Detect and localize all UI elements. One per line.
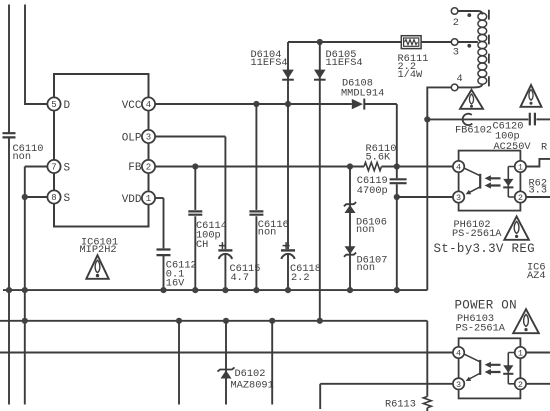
label PH6102 PS-2561A <box>452 219 502 240</box>
transformer T6001 pin2 terminal <box>458 11 483 15</box>
op-amp U1: IC6101 MIP2H2 body <box>54 74 149 227</box>
junction: pin8/pin7 rail <box>22 194 28 200</box>
pin numbers of PH6102 <box>456 163 523 204</box>
svg-text:2: 2 <box>518 380 523 390</box>
junction: VCC/C6116 <box>253 101 259 107</box>
label R62 3.3 (clipped) <box>529 177 548 196</box>
light arrows (PH6102) <box>490 178 500 185</box>
wire: transformer pin4 down to cold ground <box>427 87 451 290</box>
label D6102 MAZ8091 <box>231 368 274 392</box>
svg-text:11EFS4: 11EFS4 <box>326 57 363 69</box>
pin name labels of IC6101 <box>64 100 142 206</box>
pin 4 (VCC) of IC6101 <box>142 97 155 110</box>
capacitor C6115 (electrolytic) <box>218 249 232 251</box>
pin numbers of PH6103 <box>456 349 523 390</box>
wire: PH6102 pin2 out <box>526 196 550 198</box>
wire: VDD jog <box>155 197 163 199</box>
wire: PH6103 pin2 out <box>526 383 550 385</box>
wire: vertical drop x=272 <box>271 321 273 405</box>
label St-by3.3V REG <box>434 242 535 256</box>
svg-text:non: non <box>357 262 376 274</box>
junction: bus1/C6114 <box>192 287 198 293</box>
label IC6 AZ4 (clipped) <box>527 262 546 282</box>
svg-text:2.2: 2.2 <box>291 272 310 284</box>
polarity dot (pin2 side) <box>467 13 471 17</box>
svg-text:non: non <box>13 151 32 163</box>
pin 3 of PH6102 <box>453 191 464 202</box>
label D6105 11EFS4 <box>326 49 363 69</box>
svg-text:4: 4 <box>146 100 151 110</box>
wire: D6104/C6118 vertical <box>287 42 289 249</box>
svg-text:4: 4 <box>456 163 461 173</box>
svg-text:non: non <box>258 226 277 238</box>
wire: D6105 vertical <box>319 42 321 321</box>
label R6113 <box>385 398 416 410</box>
svg-text:MMDL914: MMDL914 <box>341 87 384 99</box>
wire: C6115 vertical (from OLP) <box>224 137 226 250</box>
phototransistor (PH6102) <box>463 168 480 176</box>
diode D6106 (zener) <box>344 202 356 206</box>
diode D6108 MMDL914 <box>352 99 363 109</box>
wire: FB row <box>155 166 364 168</box>
label R6110 5.6K <box>366 143 397 163</box>
transformer T6001 core <box>488 10 490 87</box>
svg-text:OLP: OLP <box>122 132 142 144</box>
wire: vertical drop x=179 <box>178 321 180 405</box>
svg-text:2: 2 <box>453 17 459 29</box>
warning triangle (below transformer) <box>460 90 483 109</box>
svg-text:8: 8 <box>51 193 56 203</box>
label C6118 2.2 <box>290 263 321 284</box>
svg-text:4.7: 4.7 <box>231 272 250 284</box>
pin 4 of PH6103 <box>453 347 464 358</box>
wire: bus 2 <box>0 320 427 322</box>
junction: pin4/FB6102 row <box>424 116 430 122</box>
pin 3 of PH6103 <box>453 378 464 389</box>
diode D6107 (zener) <box>345 246 356 254</box>
junction: bus1/left rail <box>6 287 12 293</box>
svg-text:AZ4: AZ4 <box>527 270 546 282</box>
transformer T6001 winding <box>478 13 487 84</box>
svg-text:non: non <box>356 224 375 236</box>
transformer T6001 pin3 terminal <box>458 41 478 43</box>
wire: bus 3 (POWER ON row to PH6103 pin4) <box>0 352 453 354</box>
wire: VCC row <box>155 103 352 105</box>
junction: FB/C6119 <box>394 163 400 169</box>
label C6120 100p AC250V <box>493 120 532 153</box>
capacitor C6120 <box>530 113 535 126</box>
svg-text:11EFS4: 11EFS4 <box>251 57 288 69</box>
capacitor C6116 <box>249 211 263 214</box>
svg-text:4: 4 <box>457 73 463 85</box>
svg-text:MAZ8091: MAZ8091 <box>231 379 274 391</box>
svg-text:VCC: VCC <box>122 100 142 112</box>
label POWER ON <box>455 298 517 312</box>
pin 4 of PH6102 <box>453 161 464 172</box>
LED (PH6103) <box>508 353 514 384</box>
svg-text:7: 7 <box>51 163 56 173</box>
junction: bus1/C6112 <box>160 287 166 293</box>
svg-text:1: 1 <box>146 194 151 204</box>
junction: C6119 bottom node <box>394 194 400 200</box>
capacitor C6118 (electrolytic) <box>281 249 295 251</box>
junction: bus2/x272 <box>269 318 275 324</box>
capacitor C6114 <box>188 211 202 214</box>
resistor R6111 (boxed) <box>401 36 421 49</box>
svg-text:3: 3 <box>453 47 459 59</box>
label D6104 11EFS4 <box>251 49 288 69</box>
capacitor C6119 <box>390 179 407 183</box>
junction: bus1/C6119 <box>394 287 400 293</box>
svg-text:5: 5 <box>51 100 56 110</box>
label IC6101 MIP2H2 <box>80 236 119 256</box>
svg-text:3.3: 3.3 <box>529 185 548 197</box>
label 3 <box>453 47 459 59</box>
svg-text:POWER ON: POWER ON <box>455 298 517 312</box>
wire: left rail vertical x=9 <box>8 5 10 134</box>
svg-text:CH: CH <box>196 239 208 251</box>
diode D6102 (zener) MAZ8091 <box>218 367 235 371</box>
junction: FB/D6106 <box>347 163 353 169</box>
warning triangle (PH6103) <box>513 309 539 333</box>
wire: pin7 to ground rail <box>25 166 48 168</box>
label R6111 2.2 1/4W <box>398 53 429 81</box>
svg-text:VDD: VDD <box>122 194 142 206</box>
wire: ground bus 1 <box>3 289 427 291</box>
opto-coupler PH6103 PS-2561A <box>459 338 521 398</box>
wire: R6113 tail <box>426 408 428 411</box>
svg-text:1/4W: 1/4W <box>398 69 424 81</box>
label D6106 non <box>356 216 387 236</box>
junction: bus1/C6118 <box>285 287 291 293</box>
svg-text:5.6K: 5.6K <box>366 151 392 163</box>
wire: C6119 node to PH6102 pin3 <box>397 196 453 198</box>
svg-text:D: D <box>64 100 71 112</box>
capacitor C6110 <box>3 133 16 137</box>
warning triangle (right of transformer) <box>521 85 542 107</box>
diode D6105 <box>314 70 326 79</box>
wire: bus2 corner down to R6113 <box>426 321 428 397</box>
wire: C6114 vertical <box>194 167 196 210</box>
svg-text:FB: FB <box>128 162 142 174</box>
svg-text:4700p: 4700p <box>357 185 388 197</box>
phototransistor (PH6103) <box>463 354 480 362</box>
pin 1 (VDD) of IC6101 <box>142 191 155 204</box>
pin 2 (FB) of IC6101 <box>142 160 155 173</box>
pin 5 (D) of IC6101 <box>47 97 60 110</box>
svg-text:2: 2 <box>146 163 151 173</box>
wire: D6102 vertical <box>225 321 227 405</box>
pin numbers of IC6101 <box>51 100 151 204</box>
opto-coupler PH6102 PS-2561A <box>459 151 521 211</box>
svg-text:PS-2561A: PS-2561A <box>456 322 506 334</box>
label R (clipped at edge) <box>541 142 547 154</box>
wire: pin3 row drop x=320 <box>319 384 321 409</box>
ferrite bead FB6102 <box>463 114 473 125</box>
junction: bus1/D6107 <box>347 287 353 293</box>
svg-text:4: 4 <box>456 349 461 359</box>
junction: VCC/D6104 <box>285 101 291 107</box>
wire: PH6103 pin3 row <box>320 383 453 385</box>
wire: FB6102 row <box>427 118 528 120</box>
junction: bus2/source rail <box>22 318 28 324</box>
svg-text:3: 3 <box>456 193 461 203</box>
label C6115 4.7 <box>230 263 261 284</box>
svg-text:FB6102: FB6102 <box>455 124 492 136</box>
pin 1 of PH6102 <box>515 161 526 172</box>
pin 1 of PH6103 <box>515 347 526 358</box>
resistor R6110 <box>364 162 382 170</box>
LED (PH6102) <box>508 167 514 198</box>
label D6107 non <box>357 255 388 275</box>
svg-text:St-by3.3V REG: St-by3.3V REG <box>434 242 535 256</box>
warning triangle (PH6102) <box>504 216 529 239</box>
wire: C6116 vertical <box>255 104 257 210</box>
warning triangle (IC6101) <box>86 255 108 279</box>
diode D6104 <box>282 70 294 79</box>
wire: pin8 stub <box>25 196 48 198</box>
wire: C6112 vertical <box>163 198 165 248</box>
wire: top wire to R6111/transformer <box>288 41 401 43</box>
wire: PH6103 pin1 out <box>526 352 550 354</box>
svg-text:3: 3 <box>456 380 461 390</box>
junction: bus2/D6102 <box>223 318 229 324</box>
pin 3 (OLP) of IC6101 <box>142 130 155 143</box>
label C6112 0.1 16V <box>166 260 197 290</box>
wire: OLP row <box>155 136 225 138</box>
svg-text:PS-2561A: PS-2561A <box>452 228 502 240</box>
svg-text:16V: 16V <box>166 278 185 290</box>
wire: C6119 vertical (from D6108) <box>396 104 398 178</box>
label 4 <box>457 73 463 85</box>
label D6108 MMDL914 <box>341 77 384 99</box>
junction: bus2/x179 <box>176 318 182 324</box>
junction: FB/C6114 <box>192 163 198 169</box>
label C6116 non <box>258 219 289 239</box>
svg-text:D6102: D6102 <box>235 368 266 380</box>
svg-text:1: 1 <box>518 163 523 173</box>
pin 2 of PH6103 <box>515 378 526 389</box>
junction: top wire/D6105 <box>317 39 323 45</box>
pin 8 (S) of IC6101 <box>47 190 60 203</box>
wire: PH6102 pin1 jog <box>526 159 550 167</box>
label C6110 non <box>13 143 44 163</box>
svg-text:R: R <box>541 142 547 154</box>
resistor R6113 <box>423 397 431 408</box>
junction: bus1/C6116 <box>253 287 259 293</box>
capacitor C6112 <box>157 250 171 256</box>
junction: bus2/D6105 <box>317 318 323 324</box>
wire: ground rail vertical x=24.8 <box>24 167 26 405</box>
svg-text:1: 1 <box>518 349 523 359</box>
polarity dot (pin3 side) <box>467 44 471 48</box>
label PH6103 PS-2561A <box>456 313 506 335</box>
label FB6102 <box>455 124 492 136</box>
wire: D6106/D6107 vertical <box>349 167 351 291</box>
pin 7 (S) of IC6101 <box>47 160 60 173</box>
junction: bus1/source rail <box>22 287 28 293</box>
svg-text:3: 3 <box>146 133 151 143</box>
svg-text:S: S <box>64 193 71 205</box>
label C6114 100p CH <box>196 220 227 251</box>
label C6119 4700p <box>357 175 388 197</box>
svg-text:2: 2 <box>518 193 523 203</box>
light arrows (PH6103) <box>490 365 500 372</box>
pin 2 of PH6102 <box>515 191 526 202</box>
svg-text:R6113: R6113 <box>385 398 416 410</box>
wire: drain rail vertical x=25 to pin 5 <box>25 5 47 105</box>
label 2 <box>453 17 459 29</box>
junction: bus1/C6115 <box>222 287 228 293</box>
transformer T6001 pin4 terminal <box>458 84 482 87</box>
svg-text:S: S <box>64 162 71 174</box>
